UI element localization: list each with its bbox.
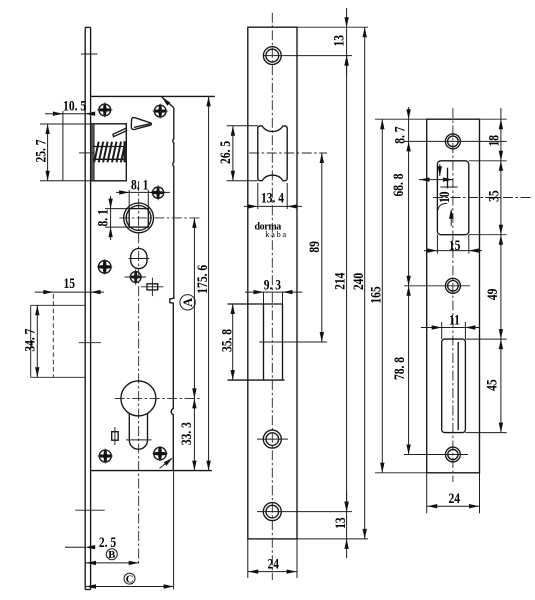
- plate vertical centerline: [452, 108, 454, 482]
- svg-text:25. 7: 25. 7: [32, 139, 49, 162]
- deadbolt opening inner line: [457, 342, 459, 430]
- hidden follower box (dashed): [31, 304, 85, 306]
- hole K1: [445, 134, 460, 149]
- svg-text:13: 13: [330, 35, 347, 47]
- euro profile cylinder hole: [121, 381, 156, 416]
- oval tick: [129, 258, 150, 260]
- svg-text:33. 3: 33. 3: [178, 422, 195, 445]
- faceplate (side strip): [84, 27, 86, 589]
- hole K1 centerline: [404, 140, 507, 142]
- faceplate thick section bar: [91, 124, 94, 181]
- bottom corner arrow: [160, 458, 173, 468]
- screw S2: [153, 104, 168, 119]
- set screw symbol: [112, 432, 119, 441]
- internal centerline: [433, 197, 533, 199]
- plate outline: [427, 119, 480, 473]
- plate bottom edge extension: [297, 538, 368, 540]
- svg-text:26. 5: 26. 5: [217, 141, 234, 164]
- svg-text:214: 214: [331, 272, 348, 290]
- svg-text:18: 18: [485, 135, 502, 147]
- svg-text:8. 1: 8. 1: [131, 176, 148, 193]
- case right edge extension to C dim: [173, 471, 175, 590]
- latch cutout centerline: [249, 152, 327, 154]
- top chamfer: [161, 96, 174, 107]
- spring rails: [93, 146, 125, 148]
- hole H1: [263, 47, 281, 65]
- latch opening (rounded rect): [437, 161, 468, 235]
- plate vertical centerline: [271, 13, 273, 580]
- svg-text:89: 89: [305, 241, 322, 253]
- screw S7: [152, 446, 167, 461]
- svg-text:68. 8: 68. 8: [390, 173, 407, 196]
- plate outline: [248, 27, 297, 539]
- dim A and 33.3 shared line: [193, 218, 195, 471]
- internal tick: [440, 186, 457, 188]
- screw S3: [151, 185, 166, 200]
- internal down arrow: [439, 164, 441, 176]
- spring seat bar: [123, 141, 125, 162]
- latch bolt: [131, 118, 151, 130]
- left dim stack 8.7 / 68.8 / 78.8: [408, 107, 410, 455]
- lock case top edge: [91, 95, 215, 97]
- internal tab line: [447, 168, 449, 189]
- circled A label: [180, 295, 195, 310]
- svg-text:78. 8: 78. 8: [390, 357, 407, 380]
- cylinder horizontal centerline: [119, 217, 202, 219]
- spring centerline stub: [79, 152, 95, 154]
- deadbolt cutout centerline: [259, 341, 327, 343]
- svg-text:35: 35: [485, 190, 502, 202]
- hole H2 centerline: [257, 438, 288, 440]
- screw S6: [98, 448, 113, 463]
- svg-text:175. 6: 175. 6: [194, 265, 211, 294]
- spring coils: [94, 142, 125, 163]
- screw S1: [97, 102, 112, 117]
- latch cutout (bone shape): [258, 126, 287, 181]
- svg-text:15: 15: [64, 275, 76, 292]
- internal up arrow: [450, 210, 452, 226]
- svg-text:kaba: kaba: [265, 229, 287, 239]
- svg-text:165: 165: [367, 286, 384, 304]
- screw S5 with crosshair: [125, 269, 146, 284]
- svg-text:8. 7: 8. 7: [391, 126, 408, 144]
- svg-text:49: 49: [484, 288, 501, 300]
- cylinder hub circles: [124, 203, 154, 233]
- cylinder square hole: [129, 209, 148, 228]
- svg-text:34. 7: 34. 7: [21, 328, 38, 351]
- hole K2 centerline: [404, 285, 470, 287]
- plate top edge extension: [297, 26, 368, 28]
- svg-text:13. 4: 13. 4: [261, 189, 284, 206]
- deadbolt cutout: [263, 304, 265, 380]
- dim B: [106, 549, 117, 560]
- svg-text:24: 24: [268, 555, 280, 572]
- svg-text:9. 3: 9. 3: [264, 276, 282, 293]
- svg-text:11: 11: [449, 311, 460, 328]
- hole H2: [263, 430, 281, 448]
- screw S4: [97, 259, 112, 274]
- hole H3: [263, 503, 281, 521]
- right extension lines: [480, 118, 507, 120]
- euro horizontal centerline: [115, 397, 202, 399]
- hole H3 centerline: [257, 511, 352, 513]
- small rect symbol with crosshair: [147, 284, 158, 290]
- deadbolt opening: [442, 339, 466, 433]
- right dim stack 18 / 35 / 49 / 45: [500, 108, 502, 433]
- faceplate tick marks: [81, 53, 98, 55]
- lock case right edge with notches: [170, 108, 174, 471]
- internal thick arrow line: [419, 179, 453, 181]
- plate top edge extension left: [375, 118, 427, 120]
- svg-text:240: 240: [350, 273, 367, 291]
- svg-text:A: A: [181, 298, 195, 307]
- spring box outline: [91, 124, 126, 181]
- hole K3: [446, 447, 461, 462]
- oval hole: [131, 249, 147, 269]
- svg-text:8. 1: 8. 1: [94, 209, 111, 226]
- lever bar: [113, 128, 127, 137]
- svg-text:45: 45: [483, 379, 500, 391]
- internal arc: [438, 203, 447, 210]
- hole H1 centerline: [263, 55, 352, 57]
- lock vertical centerline: [138, 181, 140, 565]
- svg-text:13: 13: [332, 517, 349, 529]
- dim C: [124, 573, 135, 584]
- lock case bottom edge: [91, 470, 212, 472]
- svg-text:B: B: [108, 550, 115, 561]
- svg-text:2. 5: 2. 5: [99, 534, 117, 551]
- hole K3 centerline: [404, 454, 468, 456]
- hole K2: [445, 278, 460, 293]
- svg-text:24: 24: [448, 489, 460, 506]
- euro chord tick: [126, 439, 152, 441]
- svg-text:C: C: [126, 574, 134, 585]
- svg-text:10. 5: 10. 5: [63, 97, 86, 114]
- plate bottom edge extension left: [375, 472, 427, 474]
